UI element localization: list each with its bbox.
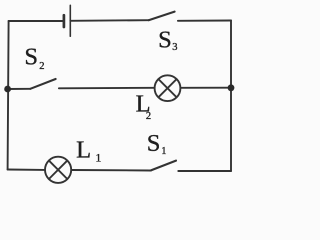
svg-text:3: 3 — [172, 42, 177, 53]
wire: top rail, top-left corner to battery negative plate — [9, 20, 63, 22]
wire: top rail, battery to switch S3 pivot — [70, 19, 148, 22]
wire: middle rail, S2 fixed contact to lamp L2 — [59, 87, 154, 90]
wire: top rail, S3 fixed contact to top-right corner — [178, 20, 231, 22]
wire: middle rail, left junction to switch S2 pivot — [8, 88, 31, 90]
wire: bottom rail, S1 fixed contact to bottom-right corner — [178, 170, 231, 172]
svg-text:L: L — [76, 137, 91, 164]
svg-text:1: 1 — [161, 146, 166, 157]
switch S3 (open): arm — [149, 12, 175, 21]
battery B1 (cell): long positive plate — [69, 5, 71, 36]
battery B1 (cell): short negative plate — [63, 15, 66, 27]
switch S1 (open): arm — [151, 161, 176, 171]
wire: bottom rail, lamp L1 to switch S1 pivot — [72, 169, 151, 172]
switch S2 (open): arm — [30, 79, 55, 89]
node: left junction of middle rail and left rail — [4, 86, 11, 93]
wire: right rail, top-right corner to bottom-right corner — [230, 21, 232, 172]
svg-text:1: 1 — [95, 151, 101, 165]
svg-text:S: S — [24, 44, 38, 71]
node: right junction of middle rail and right rail — [228, 84, 235, 91]
wire: middle rail, lamp L2 to right junction — [181, 87, 231, 89]
wire: left rail, top-left corner to bottom-left corner — [8, 21, 9, 170]
lamp L2 (circle with X) — [155, 75, 181, 101]
svg-text:2: 2 — [146, 111, 151, 122]
svg-text:S: S — [158, 26, 172, 53]
svg-text:2: 2 — [39, 61, 44, 72]
svg-text:S: S — [147, 130, 161, 157]
wire: bottom rail, bottom-left corner to lamp L1 — [8, 169, 45, 171]
lamp L1 (circle with X) — [45, 157, 71, 183]
